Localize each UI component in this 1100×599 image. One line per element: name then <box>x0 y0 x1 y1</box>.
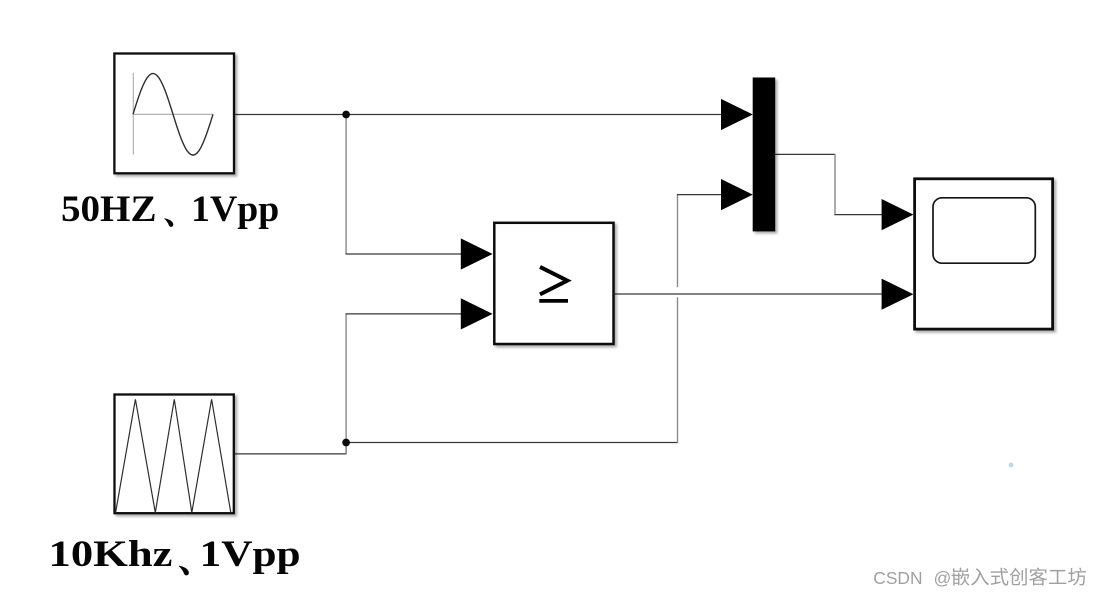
arrowhead into scope input 2 <box>882 279 914 310</box>
svg-text:1Vpp: 1Vpp <box>200 534 301 575</box>
arrowhead into comparator input 2 <box>461 298 493 329</box>
wire: node B right to riser <box>346 442 678 444</box>
label "10Khz、1Vpp" <box>49 534 301 576</box>
relational operator block U1 (>=) <box>494 223 613 344</box>
sine icon horizontal axis <box>133 113 213 115</box>
arrowhead into scope input 1 <box>882 199 914 230</box>
arrowhead into mux input 1 <box>721 99 753 130</box>
wire: comparator output to scope input 2 <box>615 293 882 295</box>
triangle wave source block <box>115 395 234 514</box>
node A (junction dot on sine output) <box>342 111 350 119</box>
>= symbol underline <box>539 299 568 303</box>
wire: riser up to mux input 2 level (with hop gap at comparator output crossing) <box>677 297 679 443</box>
>= symbol chevron <box>540 267 567 295</box>
svg-text:CSDN: CSDN <box>873 568 922 588</box>
watermark "CSDN @嵌入式创客工坊" <box>873 568 1086 588</box>
mux block (vertical bar) <box>753 78 776 232</box>
wire: triangle source output to node B <box>235 453 346 455</box>
scope block <box>915 179 1053 329</box>
triangle icon zigzag <box>116 399 231 512</box>
sine wave source block <box>114 54 234 174</box>
sine icon curve <box>133 74 213 156</box>
label "50HZ、1Vpp" <box>61 189 279 230</box>
arrowhead into comparator input 1 <box>461 238 493 269</box>
svg-text:10Khz: 10Khz <box>49 534 173 575</box>
arrowhead into mux input 2 <box>721 179 753 210</box>
wire: node B up to comparator input 2 <box>345 314 347 443</box>
wire: branch from node A down to comparator input 1 <box>345 115 347 255</box>
svg-text:1Vpp: 1Vpp <box>191 189 279 230</box>
wire: sine source output to mux input 1 <box>235 114 721 116</box>
sine icon vertical axis <box>132 73 134 155</box>
node B (junction dot on triangle output) <box>342 439 350 447</box>
stray blue dot artifact <box>1009 463 1014 468</box>
scope screen (rounded rect) <box>933 198 1035 263</box>
svg-text:@: @ <box>934 568 952 588</box>
svg-text:50HZ: 50HZ <box>61 189 157 230</box>
wire: mux output to scope input 1 <box>775 153 835 155</box>
